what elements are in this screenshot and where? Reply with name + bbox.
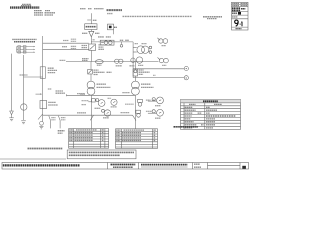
T1 labels [97, 83, 107, 85]
T1 wire box to winding [90, 74, 92, 81]
drop to left table [91, 95, 93, 128]
tb bottom small [236, 28, 242, 30]
right stub meter 2 [148, 109, 164, 116]
hline to duct [24, 76, 43, 78]
wt-left rows [69, 132, 73, 134]
rowB cluster labels [146, 110, 152, 112]
text left of titleblock [203, 16, 222, 18]
T1 wire bus to box [90, 62, 92, 70]
duct blade [38, 114, 43, 120]
C1 meter [111, 99, 117, 105]
LA label [120, 39, 123, 41]
sec bus label right [122, 92, 129, 94]
CT labels above [98, 36, 104, 38]
tb row2 text [232, 5, 239, 7]
drop to right table [134, 95, 136, 128]
row B label [77, 112, 86, 114]
main bold title [10, 6, 40, 8]
LV label left of wire [82, 58, 89, 60]
rowB WHM label [103, 117, 109, 119]
duct box 2 [40, 101, 47, 109]
PAS text [86, 26, 97, 28]
left drop wire 1 with ground [9, 54, 14, 121]
rowB small circle [102, 109, 105, 112]
T2 labels [141, 83, 151, 85]
branch 1 blade [49, 116, 51, 121]
row B feeder line [43, 114, 133, 116]
rowA stub [88, 101, 91, 103]
hline label [20, 74, 28, 76]
duct box 1 [40, 67, 45, 79]
branch 2 drop [59, 120, 61, 128]
T1 labels right [94, 69, 99, 71]
duct box2 labels [48, 101, 56, 103]
C2 circle [138, 103, 142, 107]
strip cell4 text [194, 163, 200, 165]
T2 labels right [139, 69, 144, 71]
wt-right rows [116, 132, 120, 134]
rowB box cluster [136, 110, 141, 113]
branch 2 labels [61, 117, 66, 119]
right stub meter 1 [148, 97, 164, 104]
strip cell2 text [111, 164, 136, 166]
rowA big meter [98, 100, 105, 107]
strip right dark mark [242, 166, 246, 169]
sec bus label mid [77, 93, 85, 95]
branch 1 labels [51, 117, 55, 119]
wt-left header [69, 129, 73, 131]
spec line 1 [34, 10, 42, 12]
rowB mid text [121, 112, 130, 114]
legend header [181, 100, 241, 103]
tb small row [232, 16, 238, 18]
wire VCB to LV bus [90, 50, 92, 61]
meter small circle on bus [131, 58, 135, 62]
LA stub + head [121, 42, 123, 45]
feeder labels above H2 [63, 40, 69, 42]
HV bus [91, 41, 133, 43]
T1 winding [87, 81, 95, 89]
DP tap tick [87, 19, 91, 21]
DS triangle [89, 31, 94, 37]
PAS box [85, 24, 97, 30]
note row2 [14, 41, 35, 43]
T2 LBS box [133, 69, 138, 76]
line1 [133, 68, 184, 70]
T1 LBS box [88, 69, 93, 74]
left drop wire 2 with meter and ground [21, 55, 27, 124]
T2 winding [132, 81, 140, 89]
CT pair on bus [115, 59, 119, 63]
E label [48, 88, 52, 90]
tb big number 9-1 [235, 20, 242, 26]
CT circle 1 [104, 41, 108, 45]
CT box [100, 40, 114, 45]
T1 E label [80, 93, 85, 95]
wt-right header [116, 129, 120, 131]
VS meter pair top [157, 38, 167, 44]
strip long dark text [3, 164, 80, 166]
rowA drop box [92, 99, 96, 102]
ZCT oval on bus [95, 60, 103, 64]
C1 tick [108, 97, 112, 99]
meter drop wire [112, 30, 114, 35]
C1 label [111, 106, 117, 108]
tick label on line2 [153, 74, 156, 76]
GPT winding [133, 46, 152, 54]
meter big circle on bus [136, 57, 142, 63]
service drop vertical [90, 13, 92, 23]
rowA small circle [96, 99, 99, 102]
spec line 3 [34, 14, 43, 16]
branch 1 drop [50, 120, 52, 128]
switch blade right [133, 115, 137, 120]
feeder rows [17, 46, 34, 53]
WHM label [95, 107, 101, 109]
spec line 2 [34, 12, 43, 14]
C2 left text [125, 103, 134, 105]
GPT label [125, 39, 129, 41]
sec bus end tick [66, 94, 68, 96]
tb row1 text [232, 3, 239, 5]
bottom left note [28, 148, 63, 150]
CT circle 2 [109, 41, 113, 45]
HV riser down [132, 42, 134, 78]
GPT label2 [135, 43, 139, 45]
DS label left [82, 32, 87, 34]
duct box1 labels [48, 67, 54, 69]
tb row with black square [232, 12, 237, 14]
legend rows [185, 106, 193, 108]
rowA left texts [82, 100, 89, 102]
junction tick label [93, 39, 96, 41]
line2 [133, 77, 184, 79]
DS label right [95, 32, 100, 34]
bottom note box [67, 150, 136, 159]
VS label [162, 45, 167, 47]
tb main label row b [232, 10, 241, 12]
sec bus labels left [56, 90, 64, 92]
bus left end label [60, 59, 66, 61]
long note row [123, 15, 193, 17]
legend subheader [189, 103, 196, 105]
H2 line [43, 42, 89, 44]
VCB label right [98, 44, 104, 46]
switch blade mid [90, 115, 93, 120]
bottom left rule [0, 158, 66, 160]
VCB label left [82, 45, 88, 47]
duct bottom symbols [39, 121, 43, 128]
wire PAS to DS [90, 30, 92, 32]
emergency panel label [58, 130, 65, 132]
title block frame [232, 2, 249, 30]
DP label [93, 19, 97, 21]
pole info text [80, 8, 86, 10]
C2 labels [146, 99, 151, 101]
feeder arrows [34, 46, 36, 47]
H3 line [43, 48, 89, 50]
CT box inner tick [101, 42, 104, 44]
duct riser wire [40, 36, 45, 122]
VCB box [89, 44, 96, 50]
V circle 2 [184, 76, 188, 80]
T2 wire bus to box [134, 62, 136, 70]
arrow mark [36, 93, 41, 95]
labels above H3 [62, 46, 67, 48]
wire DS down [90, 37, 92, 44]
caption small [22, 3, 31, 5]
strip cell3 text [141, 164, 188, 166]
note row1 [12, 38, 36, 40]
caption under legend [174, 126, 199, 128]
rowB big meter [104, 110, 110, 116]
AS meter pair at bus end [158, 57, 169, 62]
T2 wire box to winding [134, 76, 136, 81]
meter label Wh [114, 26, 117, 28]
tb main label row a [232, 7, 241, 9]
V circle 1 [184, 66, 188, 70]
meter box [108, 24, 114, 30]
utility row2 [107, 13, 113, 15]
utility name [107, 9, 123, 11]
C2 box [138, 99, 143, 102]
branch 2 blade [58, 116, 60, 121]
